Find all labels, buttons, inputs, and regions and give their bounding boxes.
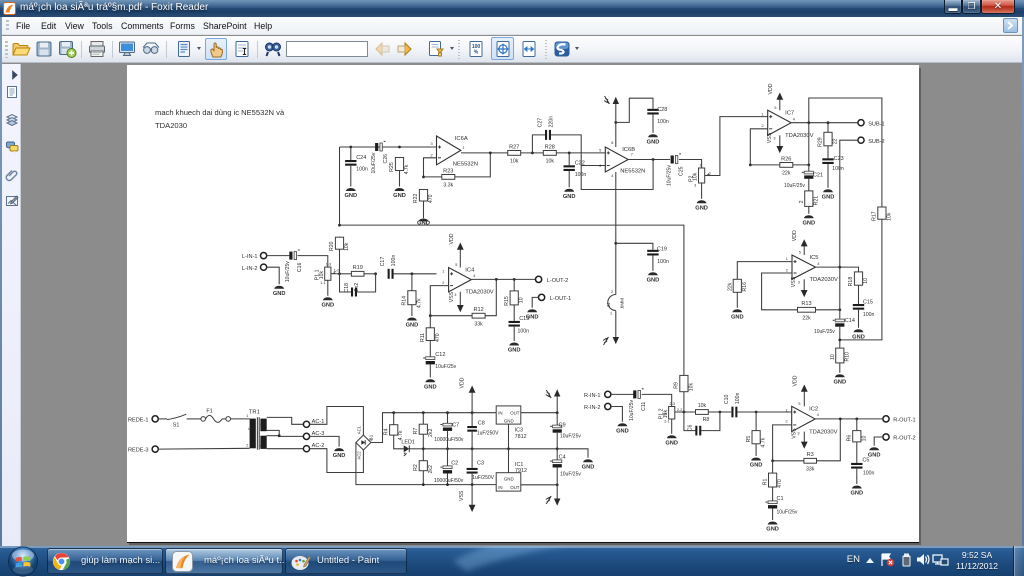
wire R25 to ground: [398, 170, 400, 186]
capacitor C7: [440, 423, 452, 431]
wire R17 to IC5 node: [840, 219, 882, 340]
wire TR1 center tap a: [267, 430, 304, 436]
wire to C9: [556, 413, 558, 425]
svg-text:7: 7: [631, 152, 633, 156]
wire IC6B V- pin 4 down: [615, 172, 617, 295]
svg-text:C18: C18: [344, 283, 350, 293]
wire to C2: [446, 449, 448, 466]
wire L-OUT-1 to ground: [532, 297, 538, 307]
wire IC7 output to SUB-1: [791, 122, 858, 124]
svg-text:2k2: 2k2: [428, 428, 434, 436]
svg-text:2: 2: [430, 153, 432, 157]
svg-text:7812: 7812: [514, 434, 526, 440]
junction R19 right: [374, 272, 377, 275]
terminal L-OUT-1: [538, 294, 571, 302]
svg-text:C26: C26: [383, 154, 389, 164]
wire IC5 output: [815, 266, 840, 268]
wire to R1: [771, 461, 773, 473]
wire to R3: [772, 460, 803, 462]
svg-text:GND: GND: [750, 462, 763, 468]
svg-text:R-IN-1: R-IN-1: [584, 393, 600, 399]
capacitor C13: [508, 316, 529, 334]
svg-text:4: 4: [259, 424, 263, 426]
svg-text:GND: GND: [616, 428, 629, 434]
resistor R17: [871, 206, 892, 220]
svg-text:22k: 22k: [782, 170, 791, 176]
svg-text:VDD: VDD: [768, 83, 774, 94]
svg-text:8: 8: [611, 141, 613, 145]
capacitor C16: [285, 250, 303, 282]
capacitor C5: [851, 457, 874, 476]
junction R1/R3: [771, 459, 774, 462]
svg-text:S1: S1: [173, 422, 180, 428]
wire C9 to mid: [556, 433, 558, 449]
resistor R26: [780, 156, 793, 176]
wire IC5 +input: [737, 261, 792, 279]
junction R25: [398, 145, 401, 148]
svg-text:VSS: VSS: [791, 428, 797, 439]
svg-text:R2: R2: [413, 464, 419, 471]
svg-text:22k: 22k: [802, 315, 811, 321]
svg-text:1uF/250V: 1uF/250V: [472, 475, 494, 481]
wire AC-3 to ground: [309, 436, 339, 446]
off-page marker +12V: [546, 390, 551, 398]
svg-text:GND: GND: [424, 384, 437, 390]
wire C7 to mid rail: [446, 431, 448, 449]
capacitor C3: [466, 468, 477, 474]
svg-text:R15: R15: [504, 296, 510, 306]
capacitor C24: [345, 155, 368, 172]
svg-text:VSS: VSS: [767, 132, 773, 143]
svg-text:5: 5: [599, 148, 601, 152]
ground C24: [344, 188, 357, 199]
svg-text:10: 10: [830, 354, 836, 360]
svg-text:GND: GND: [508, 347, 521, 353]
svg-text:10k: 10k: [545, 158, 554, 164]
junction R4: [392, 411, 395, 414]
resistor R9: [673, 375, 694, 392]
svg-text:R25: R25: [389, 162, 395, 172]
svg-text:10uF/25v: 10uF/25v: [560, 433, 581, 439]
wire R20 to wiper node: [338, 249, 340, 274]
junction center tap: [278, 434, 281, 437]
wire SUB-2 to IC5 output: [840, 140, 858, 267]
capacitor C10: [724, 392, 741, 417]
svg-text:C6: C6: [688, 424, 694, 431]
svg-text:IC2: IC2: [809, 406, 818, 412]
resistor R20: [329, 237, 350, 251]
junction feedback: [489, 151, 492, 154]
svg-text:%: %: [474, 50, 479, 56]
svg-text:GND: GND: [646, 139, 659, 145]
resistor R5: [746, 430, 767, 448]
op-amp IC4: [442, 263, 493, 297]
system tray: [0, 546, 1024, 576]
svg-text:R10: R10: [844, 352, 850, 362]
ground P2: [695, 200, 708, 211]
junction C9/C4: [556, 447, 559, 450]
svg-text:10uF/25v: 10uF/25v: [814, 329, 835, 335]
svg-text:10000uF/50v: 10000uF/50v: [434, 478, 464, 484]
svg-text:5: 5: [799, 250, 801, 254]
wire IC7 out to feedback node: [808, 123, 810, 165]
wire R13 to node: [815, 309, 839, 311]
wire R28 to IC6B +input: [556, 152, 605, 154]
wire to C21: [808, 165, 810, 171]
taskbar: [0, 546, 1024, 576]
svg-text:R19: R19: [352, 265, 362, 271]
svg-text:10uF/25v: 10uF/25v: [285, 261, 291, 282]
svg-text:J4: J4: [606, 302, 611, 307]
wire C13 to ground: [513, 326, 515, 340]
svg-text:GND: GND: [646, 277, 659, 283]
wire R18 to C15: [857, 285, 859, 304]
wire to R23: [423, 176, 441, 178]
wire C12 to ground: [429, 364, 431, 377]
svg-text:10uF/25v: 10uF/25v: [435, 364, 456, 370]
junction feedback IC4: [495, 278, 498, 281]
wire bridge minus to -rail: [356, 442, 496, 484]
svg-text:1uF/250V: 1uF/250V: [477, 430, 499, 436]
wire mid to ground stub: [557, 449, 588, 458]
svg-text:REDE-1: REDE-1: [128, 417, 149, 423]
wire R16 to ground: [736, 292, 738, 308]
svg-text:NE5532N: NE5532N: [620, 168, 645, 174]
svg-text:3.3k: 3.3k: [443, 182, 453, 188]
wire mix bus node A: [339, 225, 683, 375]
svg-text:2: 2: [785, 419, 787, 423]
svg-text:GND: GND: [333, 453, 346, 459]
svg-text:GND: GND: [581, 464, 594, 470]
svg-text:2: 2: [799, 200, 805, 203]
capacitor C27: [537, 116, 554, 140]
op-amp IC6A: [430, 136, 477, 167]
svg-text:1: 1: [761, 112, 763, 116]
svg-text:C12: C12: [435, 352, 445, 358]
ground P1.2: [665, 435, 678, 446]
wire C5 to ground: [856, 468, 858, 483]
wire to R6: [856, 419, 858, 431]
svg-text:R17: R17: [871, 211, 877, 221]
svg-text:2k2: 2k2: [428, 465, 434, 473]
wire AC-1 to bridge: [309, 406, 363, 435]
ground R10: [833, 374, 846, 385]
wire to R5: [755, 412, 757, 431]
svg-text:GND: GND: [802, 220, 815, 226]
ground C1: [766, 521, 779, 532]
junction -12V: [556, 483, 559, 486]
svg-text:R1: R1: [762, 478, 768, 485]
svg-text:C11: C11: [641, 401, 647, 410]
svg-text:GND: GND: [417, 220, 430, 226]
svg-text:IC6A: IC6A: [455, 136, 468, 142]
wire to R4: [393, 413, 395, 425]
resistor R21: [805, 190, 813, 207]
svg-text:10k: 10k: [698, 403, 707, 409]
resistor R19: [351, 265, 364, 276]
capacitor C11: [629, 389, 647, 421]
power VDD IC7: [768, 83, 783, 110]
svg-text:R14: R14: [401, 296, 407, 306]
junction C22: [568, 151, 571, 154]
op-amp IC2: [785, 402, 837, 436]
svg-text:AC1: AC1: [356, 425, 361, 434]
ground R5: [750, 457, 763, 468]
wire LED1 to mid node: [409, 448, 423, 450]
op-amp IC7: [761, 106, 813, 141]
svg-text:4: 4: [473, 274, 475, 278]
ground C28: [646, 134, 659, 145]
wire C19 to ground: [652, 255, 654, 270]
capacitor C1: [765, 501, 777, 509]
svg-text:C9: C9: [558, 422, 565, 428]
svg-text:2: 2: [611, 290, 613, 294]
svg-text:R29: R29: [818, 137, 824, 147]
svg-text:R4: R4: [383, 428, 389, 435]
junction R5: [755, 410, 758, 413]
potentiometer P1.1: [314, 262, 339, 284]
junction R29: [826, 121, 829, 124]
resistor R23: [442, 168, 455, 188]
svg-text:L-OUT-2: L-OUT-2: [547, 278, 568, 284]
wire R2 to -rail: [422, 471, 424, 485]
terminal R-IN-1: [584, 391, 611, 399]
wire to R26: [750, 164, 780, 166]
junction R6: [855, 417, 858, 420]
junction C2 rail: [446, 483, 449, 486]
svg-text:GND: GND: [766, 526, 779, 532]
ground mid rail: [581, 459, 594, 470]
wire to C24: [350, 147, 352, 160]
svg-text:GND: GND: [731, 314, 744, 320]
svg-text:33k: 33k: [806, 466, 815, 472]
ground C12: [424, 379, 437, 390]
svg-text:33k: 33k: [474, 321, 483, 327]
svg-text:3: 3: [798, 280, 800, 284]
wire C4 to -12V: [556, 467, 558, 484]
wire to R12: [430, 315, 472, 317]
op-amp IC6B: [599, 141, 645, 178]
resistor R11: [420, 327, 441, 342]
svg-text:GND: GND: [405, 322, 418, 328]
svg-text:2-3: 2-3: [669, 402, 675, 406]
wire R-OUT-2 to ground: [874, 437, 883, 446]
resistor R7: [413, 424, 434, 437]
regulator IC1 7912: [496, 462, 527, 491]
svg-text:4: 4: [611, 174, 613, 178]
wire C3 to -rail: [471, 473, 473, 484]
svg-text:VDD: VDD: [792, 375, 798, 386]
svg-text:2: 2: [442, 281, 444, 285]
svg-text:10uF/25v: 10uF/25v: [629, 399, 635, 420]
svg-text:GND: GND: [850, 490, 863, 496]
svg-text:10: 10: [519, 297, 525, 303]
svg-text:GND: GND: [504, 418, 514, 423]
svg-text:IN: IN: [498, 410, 502, 415]
svg-text:GND: GND: [852, 334, 865, 340]
terminal AC-3: [303, 431, 324, 440]
svg-text:2: 2: [786, 268, 788, 272]
wire R22 to ground: [422, 201, 424, 218]
svg-text:.6MM: .6MM: [619, 298, 624, 310]
svg-text:OUT: OUT: [510, 410, 520, 415]
ground C15: [852, 329, 865, 340]
wire C22 to ground: [568, 171, 570, 187]
svg-text:1-1: 1-1: [320, 281, 326, 285]
wire bridge plus to +rail: [371, 413, 496, 443]
wire IC7 -input: [750, 129, 767, 165]
terminal AC-2: [303, 443, 324, 452]
svg-text:10: 10: [861, 435, 867, 441]
wire F1 to TR1: [230, 418, 249, 420]
svg-text:10uF/25v: 10uF/25v: [371, 152, 377, 173]
resistor R27: [508, 144, 521, 164]
junction C24: [349, 145, 352, 148]
junction C14/R17: [838, 338, 841, 341]
wire R14 to ground: [411, 305, 413, 316]
svg-text:R28: R28: [544, 144, 554, 150]
resistor R2: [413, 460, 434, 473]
wire IC3 out: [521, 412, 557, 414]
wire TR1 center tap b: [267, 435, 280, 437]
wire R26 to C21 node: [793, 164, 809, 166]
svg-text:C1: C1: [776, 496, 783, 502]
svg-text:C10: C10: [724, 394, 730, 404]
svg-text:C16: C16: [297, 262, 303, 272]
svg-text:100n: 100n: [735, 392, 741, 404]
svg-text:R6: R6: [846, 434, 852, 441]
resistor R10: [836, 347, 844, 363]
svg-text:C8: C8: [478, 420, 485, 426]
ground L-OUT-1: [526, 309, 539, 320]
power VSS IC2: [791, 428, 807, 449]
wire C6 loop right: [701, 412, 720, 431]
capacitor C19: [647, 246, 669, 264]
junction C7: [446, 411, 449, 414]
svg-text:1-3: 1-3: [325, 262, 331, 266]
wire IC2 -input: [772, 425, 791, 461]
transformer TR1: [247, 410, 266, 450]
wire J4 to V- marker: [615, 310, 617, 337]
wire C10 to IC2 +input: [737, 411, 792, 413]
svg-text:TDA2030V: TDA2030V: [809, 429, 837, 435]
capacitor C21: [802, 171, 814, 179]
svg-text:100n: 100n: [657, 119, 669, 125]
wire node A to IC6A +input: [339, 146, 436, 148]
ground C13: [508, 342, 521, 353]
svg-text:100n: 100n: [832, 166, 844, 172]
wire to V+ arrow: [615, 102, 617, 122]
resistor R1: [762, 472, 783, 487]
capacitor C2: [440, 466, 452, 474]
wire IC6B V+ pin 8: [615, 122, 617, 147]
wire R3 to output: [816, 419, 840, 461]
capacitor C8: [467, 426, 477, 432]
svg-text:10k: 10k: [886, 212, 892, 221]
wire R7 to R2: [422, 434, 424, 461]
wire IC1 out: [521, 484, 557, 486]
window title bar: [0, 0, 1024, 17]
start orb: [7, 546, 39, 577]
wire to R29: [827, 123, 829, 133]
junction R26 left: [749, 163, 752, 166]
ground R-OUT-2: [868, 447, 881, 458]
svg-text:GND: GND: [833, 379, 846, 385]
svg-text:R20: R20: [329, 241, 335, 251]
svg-text:10k: 10k: [319, 270, 325, 279]
ground P1.1: [321, 297, 334, 308]
svg-text:4.7k: 4.7k: [404, 164, 410, 174]
wire P1.1 wiper: [337, 273, 340, 275]
terminal AC-1: [303, 419, 324, 428]
svg-text:VSS: VSS: [791, 276, 797, 287]
capacitor C17: [380, 254, 397, 278]
svg-text:C3: C3: [477, 460, 484, 466]
wire C8 to mid rail: [471, 432, 473, 449]
svg-text:10uF/25v: 10uF/25v: [784, 183, 805, 189]
wire IC3 gnd pin: [507, 424, 509, 449]
svg-text:IC6B: IC6B: [622, 147, 635, 153]
wire R15 to C13: [513, 305, 515, 321]
svg-text:1: 1: [785, 408, 787, 412]
svg-text:R23: R23: [443, 168, 453, 174]
potentiometer P1.2: [658, 402, 682, 424]
power VDD IC5: [792, 230, 807, 255]
capacitor C4: [550, 460, 562, 468]
wire L-IN-1 to C16: [267, 254, 290, 256]
wire IC4 -input: [430, 285, 448, 315]
svg-text:2: 2: [246, 443, 248, 447]
power VDD IC2: [792, 375, 807, 406]
svg-text:GND: GND: [868, 452, 881, 458]
capacitor C12: [423, 357, 435, 365]
off-page marker V+: [604, 96, 609, 104]
ground C23: [821, 189, 834, 200]
svg-text:C23: C23: [833, 156, 843, 162]
toolbar: [2, 36, 1022, 63]
terminal R-OUT-1: [883, 416, 916, 424]
resistor R29: [818, 132, 839, 147]
capacitor C26: [371, 141, 389, 173]
terminal L-OUT-2: [535, 276, 568, 284]
power VDD rail: [459, 377, 475, 412]
wire R23 feedback to output: [455, 153, 490, 177]
svg-text:OUT: OUT: [510, 485, 520, 490]
resistor R16: [733, 279, 741, 293]
junction R15: [513, 278, 516, 281]
svg-text:10: 10: [863, 278, 869, 284]
power VSS IC7: [767, 132, 783, 153]
junction R13/C14: [838, 308, 841, 311]
svg-text:R21: R21: [813, 196, 819, 206]
wire R5 to ground: [755, 444, 757, 456]
wire C6 loop left: [684, 412, 696, 431]
off-page marker -12V: [546, 496, 551, 504]
wire R1 to C1: [771, 487, 773, 501]
wire IC6B feedback loop: [581, 159, 653, 189]
resistor R13: [797, 301, 815, 321]
wire AC-2 to bridge: [309, 449, 363, 473]
wire IC1 gnd pin: [507, 449, 509, 473]
junction feedback IC2: [839, 417, 842, 420]
svg-text:3: 3: [797, 431, 799, 435]
svg-text:10uF/25v: 10uF/25v: [776, 509, 797, 515]
wire IC2 output: [815, 418, 883, 420]
power VSS IC5: [791, 276, 807, 297]
wire TR1 sec bottom to AC-2: [267, 448, 304, 450]
svg-text:R12: R12: [473, 307, 483, 313]
wire C27 to IC6B -input: [551, 135, 606, 166]
